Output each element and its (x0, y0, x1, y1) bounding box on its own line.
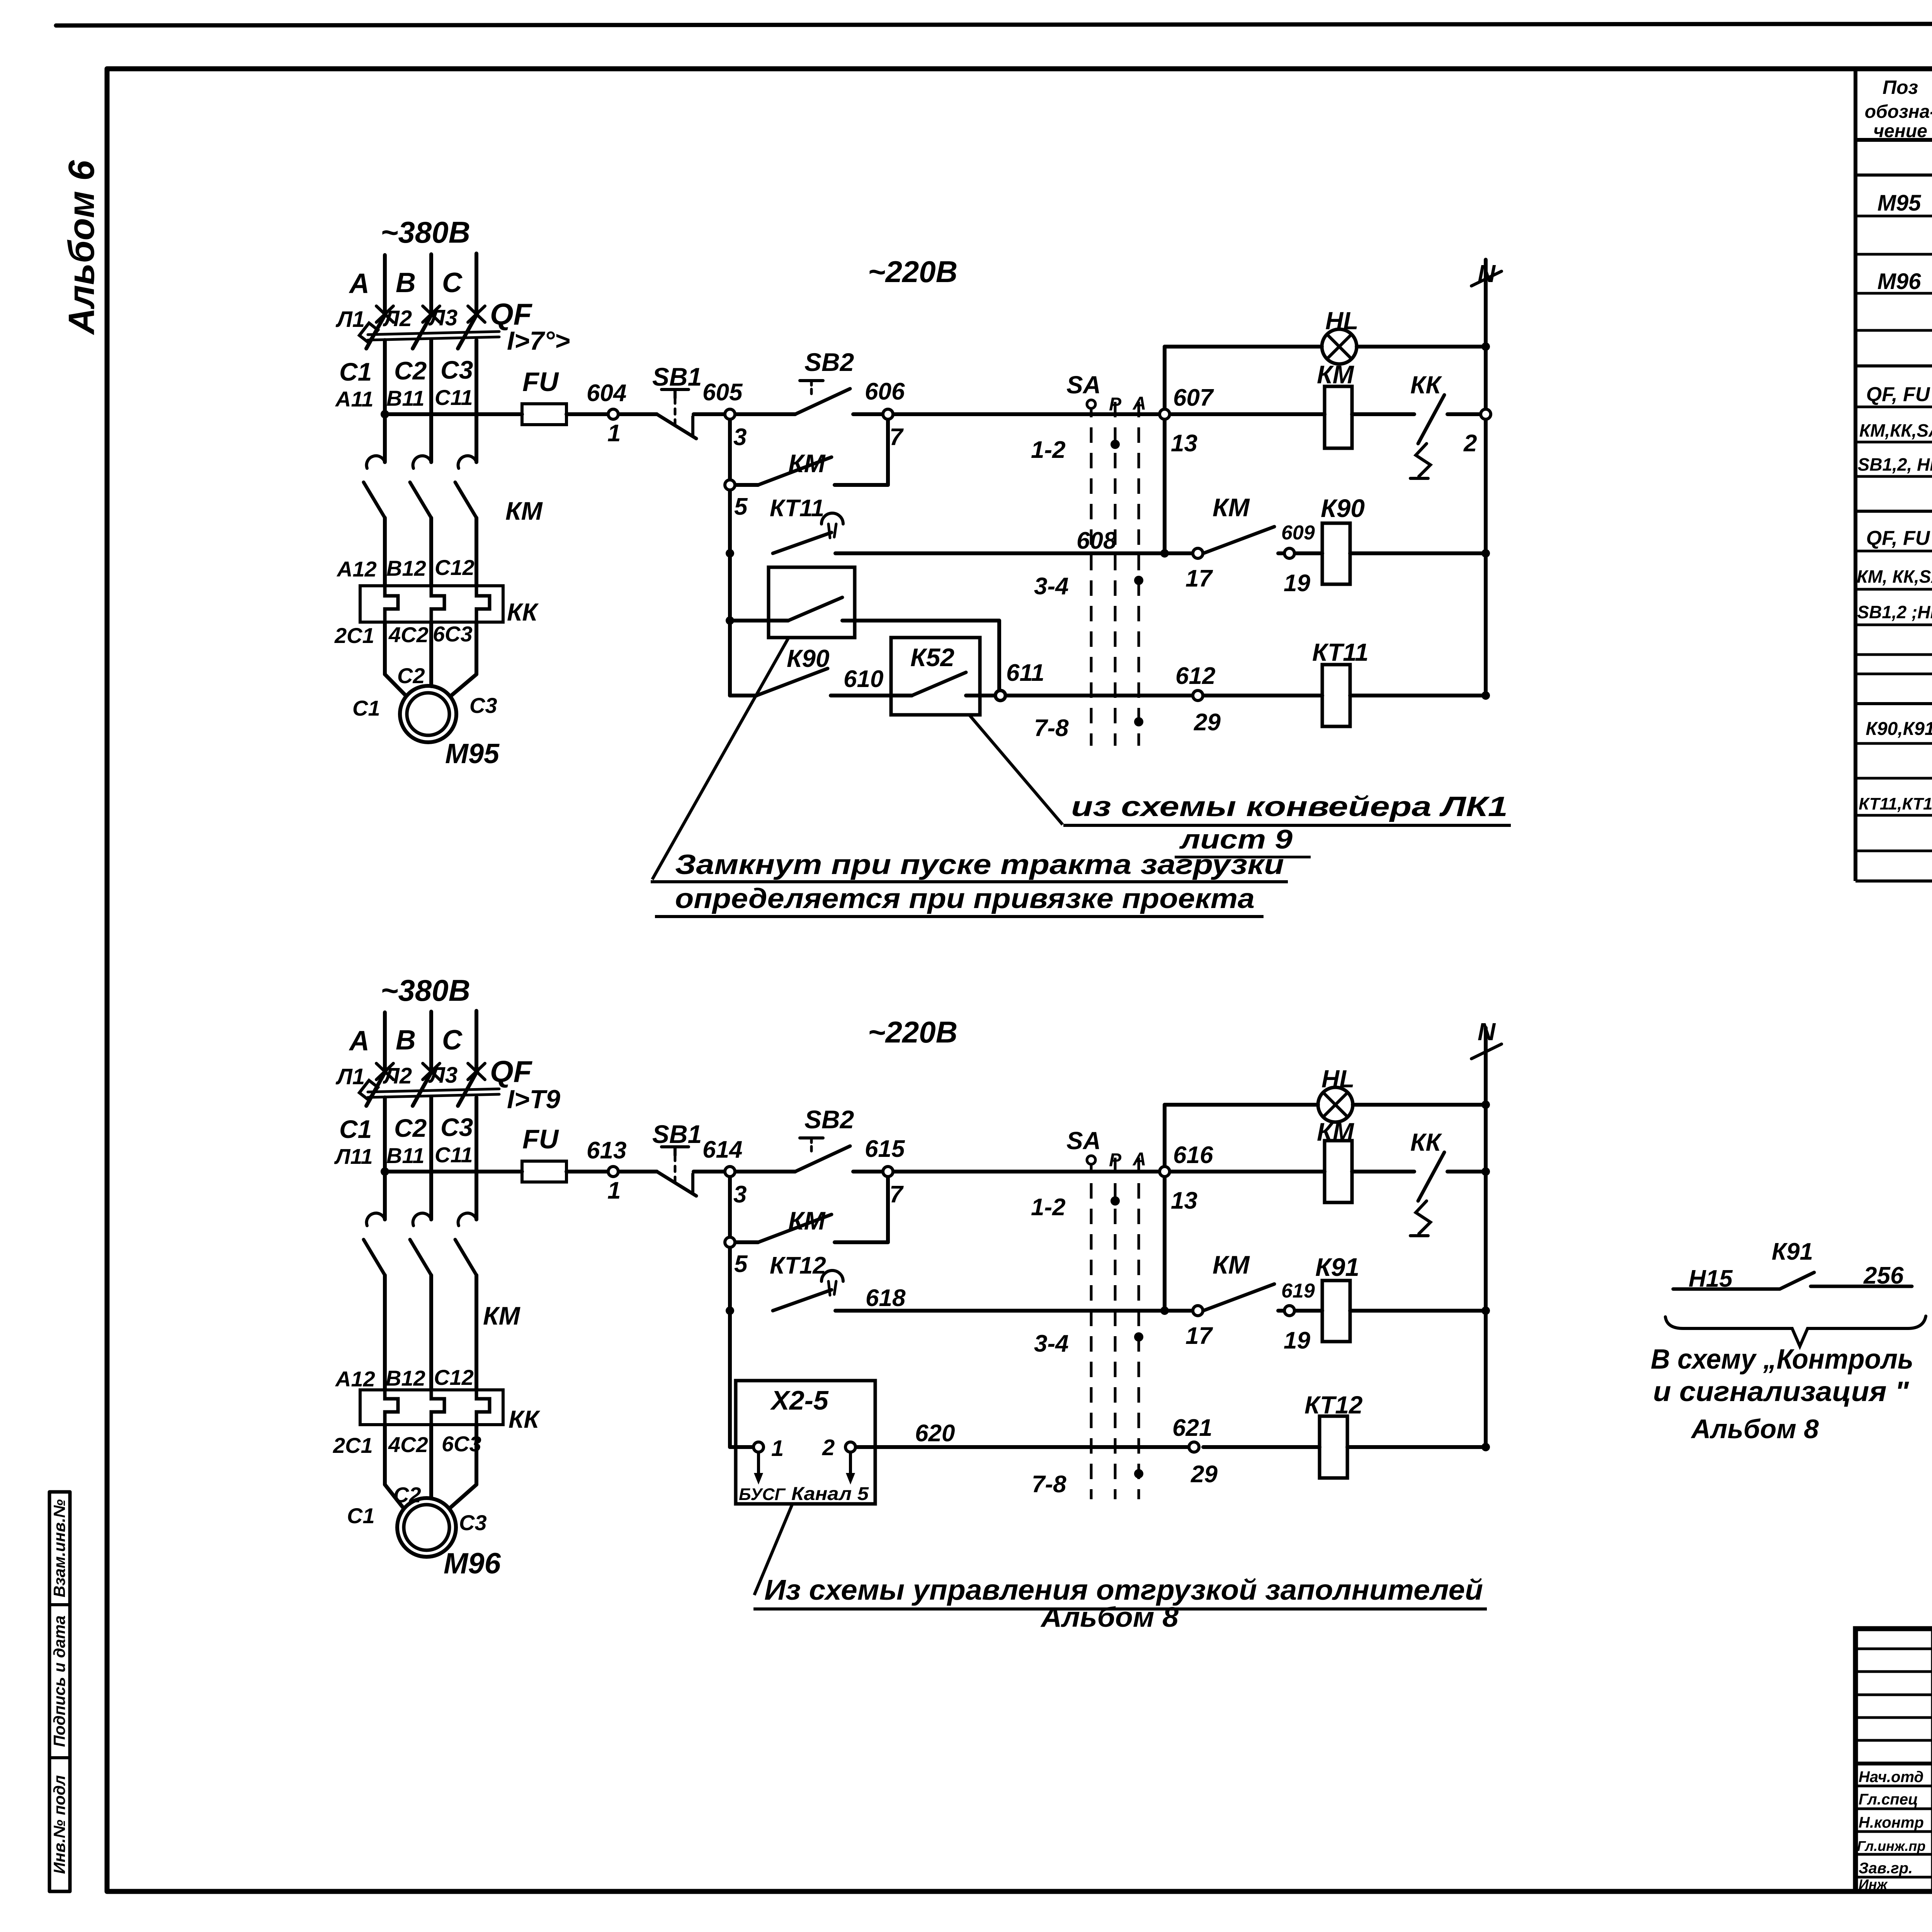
selector position o (1087, 400, 1095, 408)
svg-text:обозна-: обозна- (1865, 102, 1932, 122)
wire 615 to 616 (893, 1170, 1159, 1173)
svg-text:М96: М96 (1878, 269, 1922, 294)
K90 remote contact box (769, 567, 855, 638)
svg-text:HL: HL (1325, 307, 1358, 335)
svg-text:19: 19 (1284, 1327, 1310, 1354)
sheet outer top border (56, 23, 1932, 26)
svg-text:613: 613 (587, 1137, 626, 1164)
svg-text:чение: чение (1873, 121, 1927, 141)
breaker QF blade pole C (458, 313, 478, 349)
svg-text:7-8: 7-8 (1034, 715, 1069, 742)
svg-text:КМ: КМ (788, 1206, 826, 1235)
terminal 1 arrow (757, 1453, 760, 1475)
junction N row 7-8 (1481, 691, 1490, 700)
selector SA dashed columns top (1091, 402, 1139, 746)
wire 614 to SB2 (735, 1170, 795, 1173)
svg-text:КМ: КМ (788, 449, 826, 478)
N top tick (1471, 271, 1502, 286)
wire K91 coil to N (1350, 1309, 1486, 1313)
KM main contact pole C (458, 1213, 476, 1226)
svg-text:лист 9: лист 9 (1179, 824, 1293, 854)
svg-text:1: 1 (607, 1177, 621, 1204)
svg-text:QF, FU: QF, FU (1866, 527, 1930, 549)
KK heater pole C (476, 1390, 490, 1425)
wire 608 (835, 551, 1193, 555)
selector dot row 3-4 (1134, 576, 1143, 585)
wire KT11 coil to N (1350, 694, 1486, 697)
svg-text:КМ: КМ (1213, 493, 1250, 522)
svg-text:А: А (1133, 393, 1146, 414)
svg-text:С: С (442, 267, 463, 298)
svg-text:С2: С2 (394, 356, 427, 385)
svg-text:Альбом 6: Альбом 6 (61, 160, 102, 335)
fuse FU (522, 1161, 566, 1182)
svg-text:I>7°>: I>7°> (507, 326, 570, 355)
KK heater pole B (431, 586, 444, 622)
node 616 (1160, 1167, 1170, 1177)
wire 616 to KM coil (1170, 1170, 1325, 1173)
svg-text:КМ: КМ (1213, 1250, 1250, 1279)
svg-text:2: 2 (1463, 430, 1477, 457)
svg-text:К90: К90 (787, 645, 830, 672)
svg-text:3-4: 3-4 (1034, 573, 1069, 600)
node 2 (1481, 409, 1491, 419)
svg-text:6С3: 6С3 (442, 1432, 481, 1456)
svg-text:Гл.инж.пр: Гл.инж.пр (1857, 1838, 1925, 1854)
wire K90 box to corner (842, 619, 999, 622)
terminal box X2-5 (736, 1381, 875, 1504)
wire 621 to KT12 coil (1203, 1445, 1320, 1449)
breaker QF blade pole A (366, 313, 386, 349)
svg-text:Взам.инв.№: Взам.инв.№ (50, 1499, 68, 1597)
phase B conductor (429, 340, 433, 462)
phase C lead-in (474, 253, 478, 314)
svg-text:3-4: 3-4 (1034, 1330, 1069, 1357)
wire 612 to KT11 coil (1203, 694, 1322, 697)
svg-text:КТ11: КТ11 (1312, 638, 1369, 666)
svg-text:КМ: КМ (1317, 1117, 1355, 1146)
svg-text:Альбом 8: Альбом 8 (1690, 1414, 1819, 1444)
svg-text:К91: К91 (1772, 1238, 1813, 1265)
svg-text:SB2: SB2 (804, 1105, 854, 1134)
svg-text:К90: К90 (1321, 494, 1365, 522)
svg-text:М95: М95 (445, 738, 500, 769)
svg-text:29: 29 (1194, 709, 1221, 736)
wire 19 to K90 coil (1295, 551, 1322, 555)
svg-text:1-2: 1-2 (1031, 437, 1066, 463)
svg-text:~220В: ~220В (868, 255, 957, 289)
svg-text:615: 615 (865, 1136, 905, 1162)
svg-text:SB1: SB1 (652, 1120, 702, 1148)
breaker QF crossbar (368, 332, 499, 335)
button SB1 plunger (662, 1145, 689, 1148)
svg-text:609: 609 (1281, 522, 1315, 544)
lamp HL (1322, 329, 1357, 364)
relay coil KT12 (1320, 1416, 1347, 1478)
svg-text:В схему „Контроль: В схему „Контроль (1651, 1344, 1913, 1375)
control feed wire (385, 1170, 522, 1173)
wire 619 (1278, 1309, 1284, 1313)
KM aux contact wire left (735, 483, 758, 487)
svg-text:6С3: 6С3 (433, 622, 473, 646)
terminal 1 (753, 1442, 764, 1452)
KM main contact pole C (458, 456, 476, 468)
junction N row 3-4 (1481, 549, 1490, 558)
svg-text:~220В: ~220В (868, 1015, 957, 1049)
svg-text:БУСГ: БУСГ (739, 1485, 786, 1504)
svg-text:К52: К52 (910, 643, 954, 672)
svg-text:619: 619 (1281, 1280, 1315, 1302)
svg-text:А: А (349, 268, 369, 299)
button SB1 blade (657, 1172, 696, 1196)
svg-text:611: 611 (1006, 660, 1044, 686)
wire 610 row left (730, 694, 757, 697)
wire terminal 2 to 621 (855, 1445, 1192, 1449)
KT12 contact blade row 618 (773, 1290, 832, 1311)
svg-text:13: 13 (1171, 1187, 1197, 1214)
svg-text:17: 17 (1185, 1323, 1213, 1349)
svg-text:С2: С2 (393, 1483, 421, 1507)
junction N row 7-8 (1481, 1443, 1490, 1451)
svg-text:Р: Р (1109, 394, 1122, 415)
KM aux wire to riser (835, 483, 888, 487)
svg-text:I>Т9: I>Т9 (507, 1085, 560, 1114)
riser 615 to KM aux (886, 1177, 890, 1242)
node 611 (995, 690, 1005, 701)
contactor coil KM (1325, 386, 1352, 448)
KK heater pole B (431, 1390, 444, 1425)
terminal X mark L2 (423, 1063, 440, 1080)
KT12 time cup (821, 1270, 843, 1281)
svg-text:N: N (1478, 1018, 1496, 1046)
node 604 (608, 409, 618, 419)
svg-text:В: В (396, 267, 416, 298)
svg-text:В12: В12 (386, 556, 426, 580)
node 5 (725, 1237, 735, 1247)
svg-text:и сигнализация ": и сигнализация " (1653, 1376, 1909, 1407)
wire KT12 coil to N (1347, 1445, 1486, 1449)
node 17 (1193, 1306, 1203, 1316)
K52 contact blade (912, 672, 966, 696)
svg-text:Поз: Поз (1883, 77, 1918, 98)
button SB2 plunger (800, 1136, 823, 1139)
button SB2 plunger (800, 379, 823, 382)
svg-text:19: 19 (1284, 570, 1310, 597)
svg-text:~380В: ~380В (381, 215, 470, 249)
KK heater pole C (476, 586, 490, 622)
svg-text:В11: В11 (386, 386, 425, 410)
KM NO contact row 3-4 blade (1203, 1284, 1274, 1311)
svg-text:5: 5 (734, 1251, 748, 1277)
motor M96 (397, 1498, 456, 1557)
node 19 (1284, 548, 1294, 558)
svg-text:Подпись и дата: Подпись и дата (50, 1616, 68, 1747)
svg-text:2С1: 2С1 (334, 623, 374, 648)
wire KM coil to KK (1352, 412, 1414, 416)
phase B lead-in (429, 1012, 433, 1071)
motor leads (383, 1425, 387, 1485)
N top tick (1471, 1044, 1502, 1059)
K90 feed wire (730, 619, 788, 622)
holding branch vertical 614-5-618-X2 (728, 1177, 732, 1447)
selector dot row 1-2 (1111, 440, 1120, 449)
svg-text:Н.контр: Н.контр (1859, 1814, 1924, 1831)
svg-text:Альбом 8: Альбом 8 (1040, 1602, 1179, 1633)
svg-text:С1: С1 (347, 1503, 375, 1528)
node 5 (725, 480, 735, 490)
wire SB2 to 615 (853, 1170, 883, 1173)
breaker QF handle (359, 1080, 378, 1100)
svg-text:КМ: КМ (505, 497, 543, 525)
node 621 (1189, 1442, 1199, 1452)
svg-text:605: 605 (702, 379, 743, 406)
svg-text:Л1: Л1 (335, 1064, 365, 1089)
svg-text:7: 7 (889, 1181, 904, 1208)
KM main contact pole A (367, 1213, 385, 1226)
svg-text:КТ12: КТ12 (770, 1252, 826, 1279)
leader K52 box to note (970, 716, 1063, 825)
K90 aux contact blade (757, 668, 828, 696)
HL branch riser (1163, 1105, 1167, 1311)
svg-text:Л3: Л3 (428, 305, 457, 330)
thermal contact KK element (1416, 1201, 1430, 1234)
svg-text:7-8: 7-8 (1032, 1471, 1066, 1498)
svg-text:КК: КК (509, 1405, 540, 1433)
KM aux contact blade (758, 457, 832, 485)
KT11 time cup (821, 513, 843, 524)
svg-text:7: 7 (889, 424, 904, 451)
motor M95 (400, 686, 456, 742)
svg-text:КМ, КК,SA: КМ, КК,SA (1857, 566, 1932, 587)
svg-text:С1: С1 (339, 357, 372, 386)
svg-text:из схемы конвейера ЛК1: из схемы конвейера ЛК1 (1071, 791, 1508, 822)
junction L11 (381, 1167, 389, 1176)
brace under fragment H15 (1665, 1316, 1926, 1346)
svg-text:С11: С11 (435, 1143, 473, 1167)
terminal 2 (845, 1442, 855, 1452)
node 606 (883, 409, 893, 419)
wire 606 to 607 (893, 412, 1159, 416)
svg-text:А: А (349, 1026, 369, 1056)
breaker QF handle (359, 323, 378, 342)
KT11 contact blade row 608 (773, 532, 832, 553)
KM aux contact blade (758, 1214, 832, 1242)
node 613 (608, 1167, 618, 1177)
svg-text:608: 608 (1077, 527, 1117, 554)
svg-text:С3: С3 (469, 693, 497, 718)
svg-text:621: 621 (1172, 1415, 1212, 1441)
svg-text:17: 17 (1185, 565, 1213, 592)
svg-text:29: 29 (1190, 1461, 1218, 1488)
svg-text:КМ,КК,SA: КМ,КК,SA (1859, 420, 1932, 440)
svg-text:620: 620 (915, 1420, 955, 1447)
selector dot row 1-2 (1111, 1196, 1120, 1206)
selector dot row 7-8 (1134, 1469, 1143, 1478)
svg-text:SB2: SB2 (804, 348, 854, 376)
svg-text:606: 606 (865, 378, 905, 405)
KK heater pole A (385, 1390, 398, 1425)
svg-text:определяется при привязке п: определяется при привязке проекта (675, 883, 1255, 914)
junction N row 3-4 (1481, 1306, 1490, 1315)
node 614 (725, 1167, 735, 1177)
junction N at HL (1481, 1100, 1490, 1109)
node 607 (1160, 409, 1170, 419)
wire SB2 to 606 (853, 412, 883, 416)
svg-text:Нач.отд: Нач.отд (1859, 1769, 1923, 1786)
svg-text:604: 604 (587, 380, 626, 406)
svg-text:КМ: КМ (1317, 360, 1355, 389)
svg-text:FU: FU (522, 367, 559, 397)
svg-text:КМ: КМ (483, 1301, 521, 1330)
button SB1 blade (657, 414, 696, 439)
title block frame (1855, 1629, 1932, 1891)
relay coil K90 (1322, 523, 1350, 584)
phase B conductor (429, 1097, 433, 1219)
thermal relay KK box (360, 586, 503, 622)
svg-text:А11: А11 (335, 387, 374, 411)
svg-text:1: 1 (771, 1436, 784, 1461)
svg-text:В: В (396, 1025, 416, 1056)
HL lamp wire left (1165, 345, 1322, 349)
signature rows (1855, 1785, 1932, 1787)
wire KK to N (1447, 1170, 1486, 1173)
junction holding branch 608 (726, 549, 734, 558)
svg-text:Р: Р (1109, 1150, 1122, 1170)
K52 remote contact box (891, 638, 980, 715)
KM NO contact row 3-4 blade (1203, 527, 1274, 553)
svg-text:607: 607 (1173, 384, 1214, 411)
junction 607 riser row C (1160, 549, 1169, 558)
svg-text:А: А (1133, 1149, 1146, 1170)
svg-text:С2: С2 (394, 1114, 427, 1142)
KK heater pole A (385, 586, 398, 622)
svg-text:М96: М96 (444, 1547, 501, 1580)
HL lamp wire right (1357, 345, 1486, 349)
svg-text:КТ11: КТ11 (770, 495, 824, 522)
svg-text:612: 612 (1175, 663, 1215, 689)
terminal X mark L3 (468, 1063, 485, 1080)
node 17 (1193, 548, 1203, 558)
wire 19 to K91 coil (1295, 1309, 1322, 1313)
phase C lead-in (474, 1011, 478, 1071)
wire 607 to KM coil (1170, 412, 1325, 416)
left sidebar box (49, 1492, 70, 1891)
K90 remote contact blade (788, 597, 842, 621)
corner drop to 611 (997, 621, 1001, 691)
svg-text:В11: В11 (386, 1143, 425, 1168)
terminal X mark L1 (376, 306, 393, 322)
thermal contact KK blade (1418, 395, 1444, 444)
wire FU to 604 (566, 412, 607, 416)
svg-text:М95: М95 (1878, 190, 1922, 216)
breaker QF blade pole C (458, 1070, 478, 1106)
KM aux wire to riser (835, 1240, 888, 1244)
node 612 (1193, 690, 1203, 701)
junction N row 1-2 (1481, 1167, 1490, 1176)
node 605 (725, 409, 735, 419)
svg-text:Л1: Л1 (335, 307, 365, 332)
selector dot row 7-8 (1134, 717, 1143, 726)
button SB1 plunger (662, 388, 689, 391)
svg-text:HL: HL (1321, 1065, 1354, 1093)
HL lamp wire left (1165, 1103, 1318, 1107)
svg-text:Л2: Л2 (383, 1063, 412, 1088)
holding branch vertical 605-5-608-K90-610 (728, 420, 732, 696)
thermal contact KK blade (1418, 1152, 1444, 1201)
svg-text:SB1,2 ;HL: SB1,2 ;HL (1857, 602, 1932, 622)
svg-text:614: 614 (702, 1136, 742, 1163)
svg-text:КК: КК (1410, 371, 1442, 399)
thermal contact KK element (1416, 444, 1430, 476)
svg-text:13: 13 (1171, 430, 1197, 457)
selector position o (1087, 1156, 1095, 1164)
wire 613 to SB1 (619, 1170, 657, 1173)
wire K90 coil to N (1350, 551, 1486, 555)
svg-text:Инж: Инж (1859, 1876, 1888, 1892)
terminal X mark L2 (423, 306, 440, 322)
svg-text:К91: К91 (1315, 1253, 1359, 1281)
wire FU to 613 (566, 1170, 607, 1173)
svg-text:С3: С3 (440, 1113, 473, 1141)
leader X2-5 box to note (754, 1505, 792, 1595)
parts table grid (1855, 69, 1932, 881)
KM main contact pole A (367, 456, 385, 468)
svg-text:4С2: 4С2 (388, 1432, 428, 1457)
junction A11 (381, 410, 389, 418)
wire to terminal 1 (730, 1445, 753, 1449)
svg-text:3: 3 (733, 424, 747, 451)
node 615 (883, 1167, 893, 1177)
wire 609 (1278, 551, 1284, 555)
svg-text:С11: С11 (435, 385, 473, 410)
svg-text:Из схемы управления отгрузк: Из схемы управления отгрузкой заполнител… (764, 1574, 1483, 1606)
svg-text:~380В: ~380В (381, 973, 470, 1007)
junction holding branch 618 (726, 1306, 734, 1315)
breaker QF crossbar (368, 1089, 499, 1092)
phase A lead-in (383, 1012, 387, 1071)
svg-text:Л2: Л2 (383, 306, 412, 331)
svg-text:С: С (442, 1025, 463, 1056)
svg-text:С12: С12 (435, 555, 474, 580)
svg-text:А12: А12 (336, 557, 377, 581)
terminal X mark L3 (468, 306, 485, 322)
svg-text:610: 610 (844, 666, 883, 692)
svg-text:С3: С3 (440, 355, 473, 384)
upper-left change rows (1855, 1648, 1932, 1650)
phase C conductor (474, 340, 478, 462)
svg-text:2С1: 2С1 (333, 1433, 373, 1458)
svg-text:Гл.спец: Гл.спец (1859, 1791, 1918, 1808)
svg-text:Канал 5: Канал 5 (791, 1484, 869, 1504)
selector SA dashed columns bottom (1091, 1158, 1139, 1499)
wire 604 to SB1 (619, 412, 657, 416)
relay coil KT11 (1322, 665, 1350, 726)
KM main contact pole B (413, 1213, 431, 1226)
svg-text:FU: FU (522, 1124, 559, 1154)
svg-text:КК: КК (507, 598, 539, 626)
svg-text:Х2-5: Х2-5 (770, 1385, 829, 1415)
phase C conductor (474, 1097, 478, 1219)
breaker QF blade pole B (413, 313, 432, 349)
leader K90 box to note (652, 638, 788, 879)
phase A conductor (383, 1097, 387, 1219)
svg-text:4С2: 4С2 (388, 622, 429, 647)
contactor coil KM (1325, 1141, 1352, 1202)
control feed wire (385, 412, 522, 416)
wire 610 (831, 694, 891, 697)
button SB2 blade (795, 1146, 850, 1172)
wire K52 to 611 (891, 694, 912, 697)
